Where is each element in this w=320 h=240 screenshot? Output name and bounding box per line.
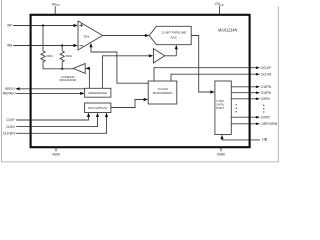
wire common-mode buffer input from reference [86,68,89,88]
wire clock mgmt to T/H sample clock [91,45,148,84]
wire INP line [13,25,76,27]
svg-text:500Ω: 500Ω [66,54,73,58]
arrow INP to T/H [73,24,77,27]
figure frame bottom [1,161,278,163]
op-amp T/H [78,21,103,50]
svg-text:INN: INN [7,44,13,48]
arrow reference into ref buffer [149,54,153,57]
label plus input [80,24,83,27]
arrow ref buffer into ADC [175,45,178,49]
wire R1 top lead [42,26,44,51]
svg-text:12-BIT PIPELINE: 12-BIT PIPELINE [161,31,186,35]
svg-text:CLKP: CLKP [6,118,15,122]
svg-text:DCLKN: DCLKN [261,72,271,76]
svg-text:T/B: T/B [262,138,268,142]
arrow pin D10 [256,91,260,94]
svg-text:ADC: ADC [171,36,178,40]
wire DIV block to clock management [111,100,147,108]
svg-text:D11P/N: D11P/N [261,85,271,89]
svg-text:PORT: PORT [216,106,224,110]
resistor R 500 ohm left [41,51,45,69]
arrow into common mode buffer [85,67,89,70]
figure frame left [0,0,2,162]
arrow clock into T/H [89,43,92,47]
wire D10 output [231,92,256,94]
arrow CLKDIV into DIV [105,113,108,117]
op-amp reference buffer [153,49,164,63]
wire DCLKN from clock management [171,74,256,81]
svg-text:MODE BUFFER: MODE BUFFER [60,78,77,82]
ellipsis dots between port and border [236,104,237,112]
arrow REFIO out [15,87,19,90]
svg-text:REFIO: REFIO [5,87,15,91]
wire OR output [231,123,256,125]
svg-text:DIV1/DIV2: DIV1/DIV2 [88,106,107,110]
wire T/H output to ADC [103,35,148,37]
wire D9 output [231,98,256,100]
svg-text:MANAGEMENT: MANAGEMENT [153,91,173,95]
figure frame right [277,7,279,162]
wire CLKP [16,114,88,120]
junction node R2 bottom / common-mode bus [61,68,63,70]
svg-text:AVCC: AVCC [52,3,60,8]
block 12-bit pipeline ADC [149,26,191,44]
arrow pin OR [256,123,260,126]
wire D11 output [231,86,256,88]
svg-text:D0P/N: D0P/N [261,115,270,119]
label minus input [80,45,83,47]
arrow pin DCLKP [256,66,260,69]
wire AVCC stub [54,6,56,15]
op-amp common mode buffer [73,63,85,73]
block CLOCK MANAGEMENT [148,81,177,104]
wire reference to ref buffer [102,56,152,89]
svg-text:OGND: OGND [217,153,226,157]
wire resistor bottom bus to common-mode buffer [43,68,73,70]
svg-text:D10P/N: D10P/N [261,91,271,95]
svg-text:INP: INP [7,24,13,28]
wire CLKDIV [16,114,106,133]
wire AGND stub [55,148,57,152]
svg-text:500Ω: 500Ω [46,54,53,58]
arrow CLKP into DIV [87,113,90,117]
block DIV1/DIV2 [85,103,111,113]
block REFERENCE [85,88,111,97]
wire ref buffer to ADC bottom [165,46,177,55]
ellipsis dots in label column [263,105,264,113]
arrow T/H to ADC [145,34,149,37]
svg-text:MAX1214N: MAX1214N [218,27,238,32]
wire DCLKP from clock management [154,68,256,81]
block LVDS DATA PORT [215,81,231,135]
junction node INP/R1 [42,24,44,26]
arrow T/B into LVDS port [220,135,223,139]
arrow pin D0 [256,116,260,119]
junction node INN/R2 [61,44,63,46]
wire R2 top lead [61,46,63,51]
arrow pin D9 [256,98,260,101]
arrow ADC into LVDS port [210,90,214,93]
svg-text:AGND: AGND [52,152,60,156]
arrow REFADJ into reference [80,92,84,95]
svg-text:ORP/ORN: ORP/ORN [261,122,277,126]
svg-text:REFERENCE: REFERENCE [88,91,107,95]
svg-text:CLKDIV: CLKDIV [3,132,16,136]
svg-text:CLKN: CLKN [6,125,15,129]
svg-text:D9P/N: D9P/N [261,97,270,101]
resistor R 500 ohm right [60,51,64,69]
wire INN line [13,45,76,47]
svg-text:REFADJ: REFADJ [3,92,16,96]
arrow CLKN into DIV [96,113,99,117]
arrow pin DCLKN [256,73,260,76]
wire T/B input [222,136,260,140]
wire D0 output [231,116,256,118]
arrow INN to T/H [73,44,77,47]
svg-text:T/H: T/H [84,35,90,39]
arrow DIV into clock management [144,98,148,101]
wire CLKN [16,114,97,127]
svg-text:DCLKP: DCLKP [261,66,271,70]
wire REFIO [19,88,85,90]
wire ADC output to LVDS data port [191,36,213,93]
chip border MAX1214N [31,15,250,147]
wire OGND stub [220,148,222,152]
wire REFADJ [16,92,83,94]
arrow pin D11 [256,86,260,89]
wire OVCC stub [219,6,221,15]
